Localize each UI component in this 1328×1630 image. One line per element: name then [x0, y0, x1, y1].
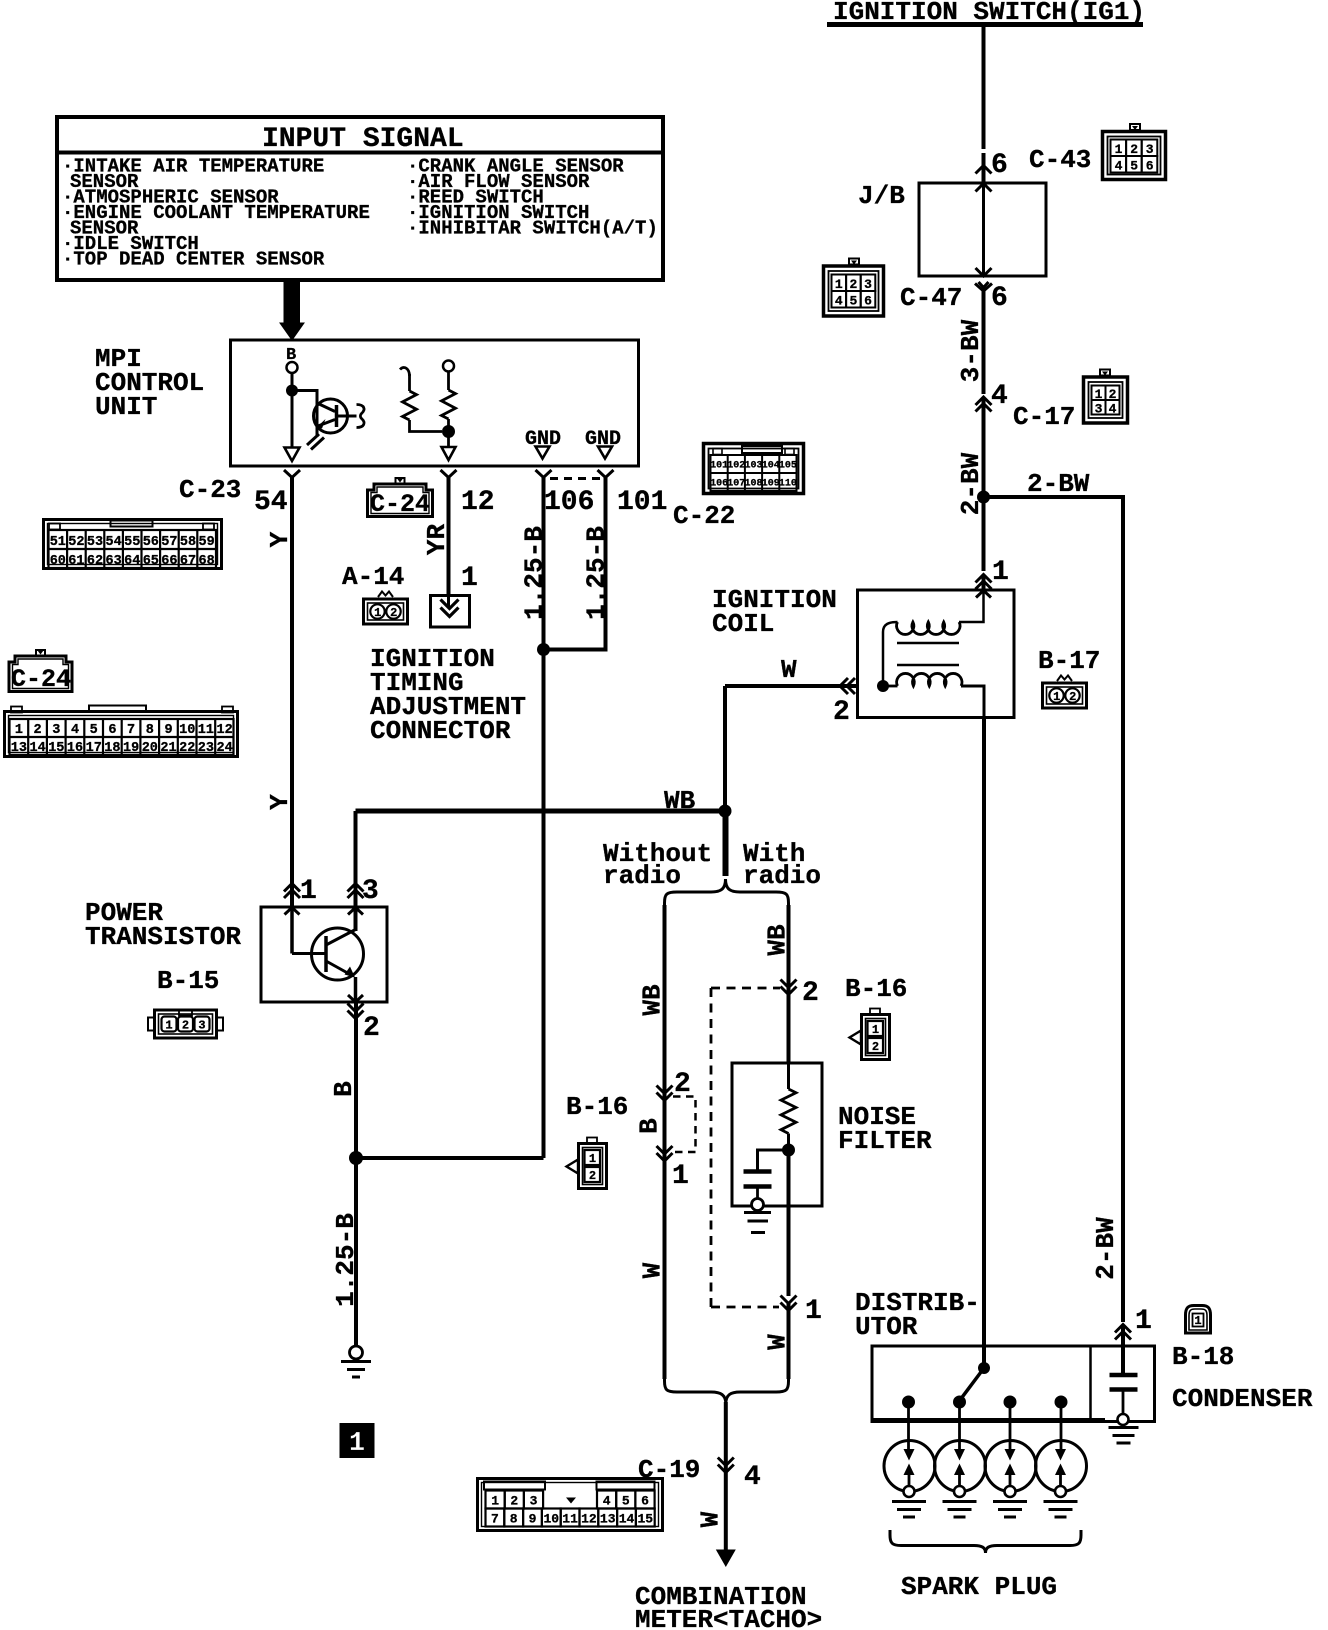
junction MPI internal [286, 385, 298, 397]
junction R1/R2 [442, 425, 455, 438]
svg-text:C-47: C-47 [900, 283, 962, 313]
svg-text:66: 66 [161, 554, 177, 569]
pin triangle MPI 54 [285, 448, 300, 462]
noise filter box [732, 1063, 822, 1206]
label distributor [855, 1288, 980, 1342]
junction block J/B [858, 181, 1046, 276]
svg-text:2: 2 [34, 723, 42, 738]
svg-text:2: 2 [833, 697, 850, 728]
terminal chevrons B-16 pin 1 (right) [781, 1296, 797, 1311]
connector C-43 icon [1103, 124, 1166, 180]
svg-text:7: 7 [127, 723, 135, 738]
svg-text:14: 14 [619, 1512, 635, 1527]
svg-text:1: 1 [461, 563, 478, 594]
connector B-18 icon [1186, 1306, 1211, 1334]
svg-text:CONNECTOR: CONNECTOR [370, 716, 511, 746]
brace split (top) [665, 879, 789, 906]
wire W to combination meter [724, 1402, 728, 1551]
svg-text:J/B: J/B [858, 181, 905, 211]
spark plug 1 [884, 1441, 935, 1518]
svg-text:B-16: B-16 [845, 974, 907, 1004]
svg-text:2: 2 [510, 1494, 518, 1509]
svg-text:B-15: B-15 [157, 966, 219, 996]
svg-text:51: 51 [50, 535, 66, 550]
wire B (PT pin 2 down) [354, 1002, 358, 1158]
wire YR (MPI 12 to timing connector) [447, 478, 451, 596]
input signal box [57, 117, 663, 280]
wire MPI internal left [291, 373, 294, 447]
svg-text:UTOR: UTOR [855, 1312, 918, 1342]
svg-text:B-18: B-18 [1172, 1342, 1234, 1372]
connector C-23 icon [44, 520, 222, 570]
capacitor condenser [1110, 1375, 1138, 1414]
GND label 2 [585, 428, 621, 459]
distributor rotor arm [960, 1368, 984, 1400]
svg-text:1: 1 [1095, 387, 1103, 402]
svg-text:1.25-B: 1.25-B [582, 526, 612, 620]
svg-text:6: 6 [991, 150, 1008, 181]
wires distributor to spark plugs [909, 1402, 1062, 1449]
svg-text:5: 5 [90, 723, 98, 738]
connector B-16 icon (right) [850, 1009, 890, 1060]
svg-text:1: 1 [589, 1152, 596, 1166]
connector C-17 icon [1084, 370, 1128, 424]
connector A-14 icon [364, 592, 408, 625]
dashed link pins 106-101 [550, 477, 600, 480]
terminal chevrons coil pin 2 (W) [840, 678, 855, 694]
junction (noise filter) [782, 1144, 795, 1157]
distributor box [872, 1346, 1155, 1422]
wire 1.25-B (MPI 106) [542, 478, 546, 1159]
connector C-22 icon [704, 444, 804, 494]
svg-text:4: 4 [991, 381, 1008, 412]
junction B / 1.25-B [349, 1151, 363, 1165]
wire with-radio branch [787, 905, 791, 1063]
svg-text:WB: WB [763, 924, 793, 956]
svg-text:4: 4 [603, 1494, 611, 1509]
svg-text:1.25-B: 1.25-B [331, 1213, 361, 1307]
svg-text:105: 105 [779, 461, 797, 472]
terminal chevrons C-19 pin 4 [718, 1458, 734, 1473]
svg-text:12: 12 [216, 723, 232, 738]
svg-text:54: 54 [105, 535, 121, 550]
svg-text:22: 22 [179, 741, 195, 756]
terminal chevrons coil pin 1 [976, 575, 992, 590]
svg-text:53: 53 [87, 535, 103, 550]
svg-text:2: 2 [1069, 690, 1076, 704]
svg-text:1: 1 [672, 1161, 689, 1192]
wire without-radio branch [663, 905, 667, 1379]
svg-text:1: 1 [300, 876, 317, 907]
spark plug 2 [935, 1441, 986, 1518]
distributor cap contacts [903, 1396, 1068, 1408]
svg-text:3-BW: 3-BW [956, 319, 986, 382]
svg-text:2: 2 [182, 1019, 189, 1033]
svg-text:16: 16 [67, 741, 83, 756]
svg-text:UNIT: UNIT [95, 392, 157, 422]
svg-text:3: 3 [362, 876, 379, 907]
terminal forks below MPI (pins 54,12,106,101) [284, 470, 614, 478]
junction 2-BW branch [977, 491, 990, 504]
svg-text:4: 4 [1115, 159, 1123, 174]
svg-text:62: 62 [87, 554, 103, 569]
terminal fork inside coil top [976, 591, 991, 598]
terminal chevrons PT pin 1 [284, 884, 300, 899]
terminal forks inside PT top [285, 908, 364, 915]
label with radio [743, 839, 821, 891]
marker black square 1 [340, 1423, 375, 1459]
svg-text:2: 2 [1130, 142, 1138, 157]
ground (condenser) [1109, 1414, 1139, 1443]
terminal chevrons PT pin 3 [348, 884, 364, 899]
svg-text:·TOP DEAD CENTER SENSOR: ·TOP DEAD CENTER SENSOR [62, 249, 325, 271]
svg-text:6: 6 [1146, 159, 1154, 174]
label ignition timing adjustment connector [370, 644, 526, 746]
svg-text:18: 18 [104, 741, 120, 756]
svg-text:101: 101 [710, 461, 728, 472]
svg-text:1: 1 [992, 557, 1009, 588]
svg-text:4: 4 [71, 723, 79, 738]
wire IG1 feed (ignition switch to J/B pin 6) [982, 27, 986, 183]
svg-text:102: 102 [727, 461, 745, 472]
svg-text:2-BW: 2-BW [1091, 1217, 1121, 1280]
MPI control unit box [95, 340, 639, 466]
connector C-19 icon [478, 1479, 663, 1531]
svg-text:1: 1 [1135, 1306, 1152, 1337]
svg-text:2: 2 [390, 606, 397, 620]
svg-text:C-22: C-22 [673, 501, 735, 531]
svg-text:1: 1 [835, 277, 843, 292]
svg-text:W: W [696, 1511, 726, 1527]
wire WB to PT pin 3 [354, 811, 358, 931]
svg-text:2-BW: 2-BW [956, 452, 986, 515]
wire WB horizontal [356, 809, 726, 814]
svg-text:2: 2 [802, 978, 819, 1009]
svg-text:3: 3 [1095, 402, 1103, 417]
svg-text:C-24: C-24 [370, 490, 430, 519]
terminal fork inside PT bottom [348, 995, 363, 1002]
svg-text:6: 6 [641, 1494, 649, 1509]
svg-text:1: 1 [374, 606, 381, 620]
coil primary winding L1 [883, 590, 984, 681]
wire resistor to junction [787, 1134, 790, 1151]
svg-text:15: 15 [637, 1512, 653, 1527]
svg-text:2: 2 [363, 1013, 380, 1044]
svg-text:56: 56 [143, 535, 159, 550]
wire 1.25-B to ground [354, 1158, 358, 1346]
terminal chevrons pin 4 C-17 [976, 397, 992, 412]
svg-text:INPUT SIGNAL: INPUT SIGNAL [262, 124, 464, 155]
svg-text:B-16: B-16 [566, 1092, 628, 1122]
svg-text:SPARK PLUG: SPARK PLUG [901, 1572, 1057, 1602]
svg-text:55: 55 [124, 535, 140, 550]
svg-text:17: 17 [86, 741, 102, 756]
label power transistor [85, 898, 241, 952]
terminal fork inside J/B bottom [976, 268, 992, 276]
svg-text:1.25-B: 1.25-B [520, 526, 550, 620]
arrowhead to combination meter [716, 1550, 736, 1568]
svg-text:B: B [329, 1081, 359, 1097]
svg-text:2-BW: 2-BW [1027, 469, 1090, 499]
svg-text:6: 6 [864, 294, 872, 309]
svg-text:C-17: C-17 [1013, 402, 1075, 432]
svg-text:1: 1 [872, 1023, 879, 1037]
node IGNITION SWITCH(IG1) [827, 0, 1145, 27]
svg-text:8: 8 [510, 1512, 518, 1527]
terminal chevron pin 6 C-43 [976, 166, 992, 174]
svg-text:54: 54 [254, 487, 288, 518]
distributor rotor contact [978, 1362, 990, 1374]
svg-text:Y: Y [265, 794, 295, 810]
svg-text:3: 3 [52, 723, 60, 738]
terminal chevrons PT pin 2 [348, 1004, 364, 1019]
svg-text:106: 106 [544, 487, 594, 518]
svg-text:60: 60 [50, 554, 66, 569]
svg-text:B-17: B-17 [1038, 646, 1100, 676]
brace spark plugs [890, 1530, 1081, 1553]
wire W (coil pin 2) [725, 686, 858, 811]
svg-text:9: 9 [164, 723, 172, 738]
svg-text:59: 59 [198, 535, 214, 550]
svg-text:1: 1 [1115, 142, 1123, 157]
wire junction down through box [787, 1150, 791, 1296]
svg-text:5: 5 [622, 1494, 630, 1509]
svg-text:1: 1 [1053, 690, 1060, 704]
terminal chevrons B-16 pin 2 (left) [657, 1086, 673, 1101]
label ignition coil [712, 585, 837, 639]
coil core [897, 643, 959, 665]
svg-text:65: 65 [143, 554, 159, 569]
svg-text:13: 13 [600, 1512, 616, 1527]
svg-text:101: 101 [617, 487, 667, 518]
svg-text:68: 68 [198, 554, 214, 569]
terminal chevrons condenser pin 1 [1115, 1325, 1131, 1340]
resistor (noise filter) [781, 1089, 796, 1134]
svg-text:63: 63 [105, 554, 121, 569]
svg-text:1: 1 [491, 1494, 499, 1509]
GND label 1 [525, 428, 561, 459]
dashed connector line B-16 right [711, 988, 780, 1307]
svg-text:9: 9 [529, 1512, 537, 1527]
connector C-24 label housing (upper) [368, 478, 433, 519]
svg-text:67: 67 [180, 554, 196, 569]
svg-text:110: 110 [779, 479, 797, 490]
svg-text:W: W [638, 1262, 668, 1278]
label without radio [603, 839, 712, 891]
svg-text:8: 8 [146, 723, 154, 738]
wire 2-BW branch to condenser [984, 495, 1124, 1373]
svg-text:A-14: A-14 [342, 562, 404, 592]
svg-text:7: 7 [491, 1512, 499, 1527]
wire Y (MPI 54 to power transistor 1) [290, 478, 294, 908]
svg-text:103: 103 [744, 461, 762, 472]
svg-text:10: 10 [543, 1512, 559, 1527]
svg-text:64: 64 [124, 554, 140, 569]
svg-text:21: 21 [160, 741, 176, 756]
svg-text:B: B [635, 1118, 665, 1134]
svg-text:2: 2 [872, 1040, 879, 1054]
transistor Q2 (power transistor) [292, 907, 364, 1002]
ignition timing adjustment connector symbol [431, 596, 470, 628]
svg-text:13: 13 [11, 741, 27, 756]
svg-text:CONDENSER: CONDENSER [1172, 1384, 1313, 1414]
transistor Q (MPI internal) [307, 399, 364, 450]
svg-text:1: 1 [805, 1296, 822, 1327]
junction 106/101 [537, 643, 550, 656]
svg-text:radio: radio [743, 861, 821, 891]
ground (noise filter) [744, 1199, 771, 1233]
pin triangle MPI 12 [442, 447, 456, 460]
capacitor branch (noise filter) [744, 1150, 789, 1199]
svg-text:3: 3 [1146, 142, 1154, 157]
svg-text:C-23: C-23 [179, 475, 241, 505]
node B (MPI internal) [286, 346, 298, 373]
terminal fork below J/B (C-47 pin 6) [975, 282, 992, 291]
spark plug 3 [985, 1441, 1036, 1518]
svg-text:METER<TACHO>: METER<TACHO> [635, 1605, 822, 1630]
wire through J/B [982, 183, 985, 276]
svg-text:1: 1 [349, 1429, 365, 1459]
svg-text:61: 61 [68, 554, 84, 569]
svg-text:C-43: C-43 [1029, 145, 1091, 175]
svg-text:14: 14 [29, 741, 45, 756]
connector B-16 icon (left) [567, 1138, 607, 1189]
svg-text:23: 23 [198, 741, 214, 756]
svg-text:107: 107 [727, 479, 745, 490]
ignition coil box [858, 590, 1015, 718]
svg-text:58: 58 [180, 535, 196, 550]
svg-text:12: 12 [461, 487, 495, 518]
wire into noise filter [787, 1063, 790, 1089]
svg-text:3: 3 [530, 1494, 538, 1509]
thick arrow input signal to MPI [280, 280, 304, 340]
wire WB stub to radio brace [723, 811, 729, 876]
label noise filter [838, 1102, 932, 1156]
svg-text:4: 4 [835, 294, 843, 309]
svg-text:57: 57 [161, 535, 177, 550]
svg-text:4: 4 [1109, 402, 1117, 417]
wire 2-BW vertical (C-17 to coil pin 1) [982, 399, 986, 590]
svg-text:1: 1 [15, 723, 23, 738]
spark plug 4 [1036, 1441, 1087, 1518]
svg-text:5: 5 [1130, 159, 1138, 174]
svg-text:C-24: C-24 [11, 665, 71, 694]
svg-text:FILTER: FILTER [838, 1126, 932, 1156]
resistor R1 (MPI internal) [400, 368, 442, 432]
svg-text:20: 20 [142, 741, 158, 756]
svg-text:YR: YR [422, 524, 452, 556]
svg-text:12: 12 [581, 1512, 597, 1527]
svg-text:109: 109 [762, 479, 780, 490]
wire link to B wire [356, 1156, 544, 1160]
wire MPI internal to transistor [292, 391, 317, 438]
coil secondary winding L2 [883, 673, 984, 717]
connector C-24 icon [5, 706, 238, 757]
wire 3-BW (J/B to C-17) [982, 291, 986, 394]
svg-text:1: 1 [165, 1019, 172, 1033]
svg-text:11: 11 [198, 723, 214, 738]
svg-text:W: W [781, 655, 797, 685]
svg-text:6: 6 [991, 283, 1008, 314]
power transistor box [261, 907, 387, 1002]
dashed bracket B-16 left [673, 1097, 696, 1153]
connector B-17 icon [1043, 676, 1087, 709]
ground (left) [341, 1346, 371, 1377]
connector B-15 icon [148, 1010, 223, 1038]
terminal chevrons B-16 pin 1 (left) [657, 1146, 673, 1161]
svg-text:52: 52 [68, 535, 84, 550]
connector C-24 label housing (lower) [9, 650, 72, 694]
wire 1.25-B (MPI 101) [548, 478, 606, 650]
svg-text:2: 2 [589, 1169, 596, 1183]
svg-text:106: 106 [710, 479, 728, 490]
wire right branch to brace [787, 1303, 791, 1379]
svg-text:104: 104 [762, 461, 780, 472]
svg-text:1: 1 [1194, 1314, 1201, 1328]
svg-text:2: 2 [849, 277, 857, 292]
svg-text:TRANSISTOR: TRANSISTOR [85, 922, 241, 952]
svg-text:Y: Y [265, 531, 295, 547]
junction inside coil [877, 680, 889, 692]
brace merge (bottom) [665, 1378, 789, 1404]
svg-text:5: 5 [849, 294, 857, 309]
junction WB [719, 805, 732, 818]
terminal fork inside J/B top [976, 184, 992, 192]
resistor R2 (MPI internal) [442, 361, 456, 448]
svg-text:24: 24 [216, 741, 232, 756]
svg-text:2: 2 [1109, 387, 1117, 402]
svg-text:19: 19 [123, 741, 139, 756]
label combination meter [635, 1582, 822, 1630]
svg-text:WB: WB [638, 984, 668, 1016]
svg-text:·INHIBITAR SWITCH(A/T): ·INHIBITAR SWITCH(A/T) [407, 218, 658, 240]
svg-text:6: 6 [108, 723, 116, 738]
svg-text:15: 15 [48, 741, 64, 756]
connector C-47 icon [824, 259, 884, 317]
svg-text:3: 3 [864, 277, 872, 292]
terminal chevrons B-16 pin 2 (right) [781, 980, 797, 995]
wire coil secondary to distributor [982, 718, 986, 1369]
svg-text:11: 11 [562, 1512, 578, 1527]
svg-text:4: 4 [744, 1462, 761, 1493]
svg-text:radio: radio [603, 861, 681, 891]
svg-text:108: 108 [744, 479, 762, 490]
svg-text:COIL: COIL [712, 609, 774, 639]
svg-text:10: 10 [179, 723, 195, 738]
svg-text:WB: WB [664, 786, 696, 816]
svg-text:3: 3 [198, 1019, 205, 1033]
